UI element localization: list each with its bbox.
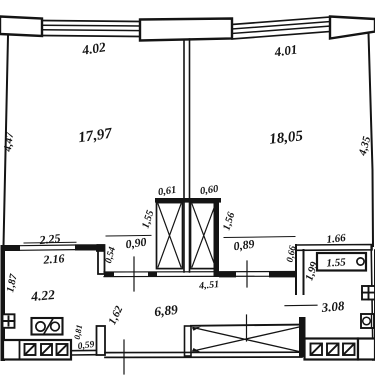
bathroom top wall [296, 245, 372, 251]
bathroom band square 3 [343, 344, 355, 356]
closet top bar [155, 198, 221, 203]
svg-text:0,90: 0,90 [125, 235, 148, 252]
dimension tick bottom wall [123, 340, 125, 374]
closet right X [192, 204, 216, 267]
bathroom right wall [371, 246, 375, 360]
closet right thick wall [214, 198, 220, 277]
wall top-right block [330, 17, 375, 39]
closet left X [158, 204, 181, 267]
svg-text:4,47: 4,47 [2, 131, 16, 153]
wall left exterior upper [4, 36, 9, 246]
wall top-left block [0, 17, 42, 37]
wardrobe left wall [185, 326, 192, 356]
window W2 (4.01) [232, 17, 330, 39]
wall jog kitchen corner [98, 245, 105, 274]
wall fill right of door 0.90 [148, 272, 157, 277]
wall top-center block [140, 19, 232, 41]
sink (square with cross) [362, 286, 375, 300]
opening in kitchen-top wall (2.25/2.16) [20, 245, 75, 250]
dimension line over door 0.90 [106, 234, 151, 237]
svg-text:2.16: 2.16 [42, 251, 65, 267]
wall right exterior [369, 33, 374, 246]
kitchen band square 1 [25, 344, 36, 355]
kitchen band square 2 [41, 344, 52, 355]
bathroom left wall lower (filled) [299, 317, 306, 357]
bottom-right wall box [358, 339, 375, 360]
bottom band bathroom [305, 339, 359, 360]
wall kitchen-top segment C [75, 244, 98, 250]
bathroom band square 1 [311, 344, 323, 356]
window W1 (4.02) [42, 21, 140, 37]
pilaster at kitchen/hall [97, 326, 106, 355]
wall left exterior lower (filled) [1, 245, 6, 361]
svg-text:3.08: 3.08 [320, 298, 345, 315]
bathtub drain circle [357, 258, 364, 265]
wardrobe X [193, 327, 299, 352]
svg-text:6,89: 6,89 [154, 302, 179, 319]
bathroom left wall upper [296, 245, 304, 294]
wardrobe top line [191, 325, 301, 326]
kitchen band divider [19, 340, 21, 360]
svg-text:1.66: 1.66 [326, 232, 347, 246]
svg-text:4,.51: 4,.51 [198, 279, 220, 292]
dimension tick at wardrobe [246, 315, 248, 341]
bottom wall hallway [105, 352, 302, 357]
dimension line 2.25 [24, 241, 76, 244]
leader line to 3.08 [285, 304, 317, 307]
toilet [361, 314, 374, 328]
dimension line over door 0.89 [224, 237, 295, 238]
kitchen band square 3 [57, 344, 68, 355]
partition wall between rooms [184, 39, 190, 272]
dimension tick below door 0.90 [133, 257, 135, 291]
wall kitchen-top segment A [5, 245, 20, 251]
wall fill left of door 0.90 [104, 272, 114, 277]
stove [32, 318, 63, 335]
closet left box [157, 203, 183, 269]
bathtub [317, 253, 366, 271]
svg-text:2.25: 2.25 [38, 231, 61, 247]
dimension tick below door 0.89 [246, 261, 248, 287]
wardrobe arrowheads [192, 327, 201, 331]
svg-text:0,89: 0,89 [233, 237, 256, 254]
svg-text:1.55: 1.55 [326, 256, 346, 269]
wall mid band outline [104, 272, 296, 277]
wall fill left of door 0.89 [219, 272, 236, 278]
wall fill right of door 0.89 [269, 272, 296, 278]
bathroom band square 2 [327, 344, 339, 356]
bottom wall segment kitchen-to-pilaster [71, 350, 97, 355]
bottom wall kitchen band [3, 340, 71, 360]
svg-text:4.22: 4.22 [30, 287, 56, 304]
ventilation square with cross [3, 314, 15, 328]
closet right box [191, 203, 218, 269]
